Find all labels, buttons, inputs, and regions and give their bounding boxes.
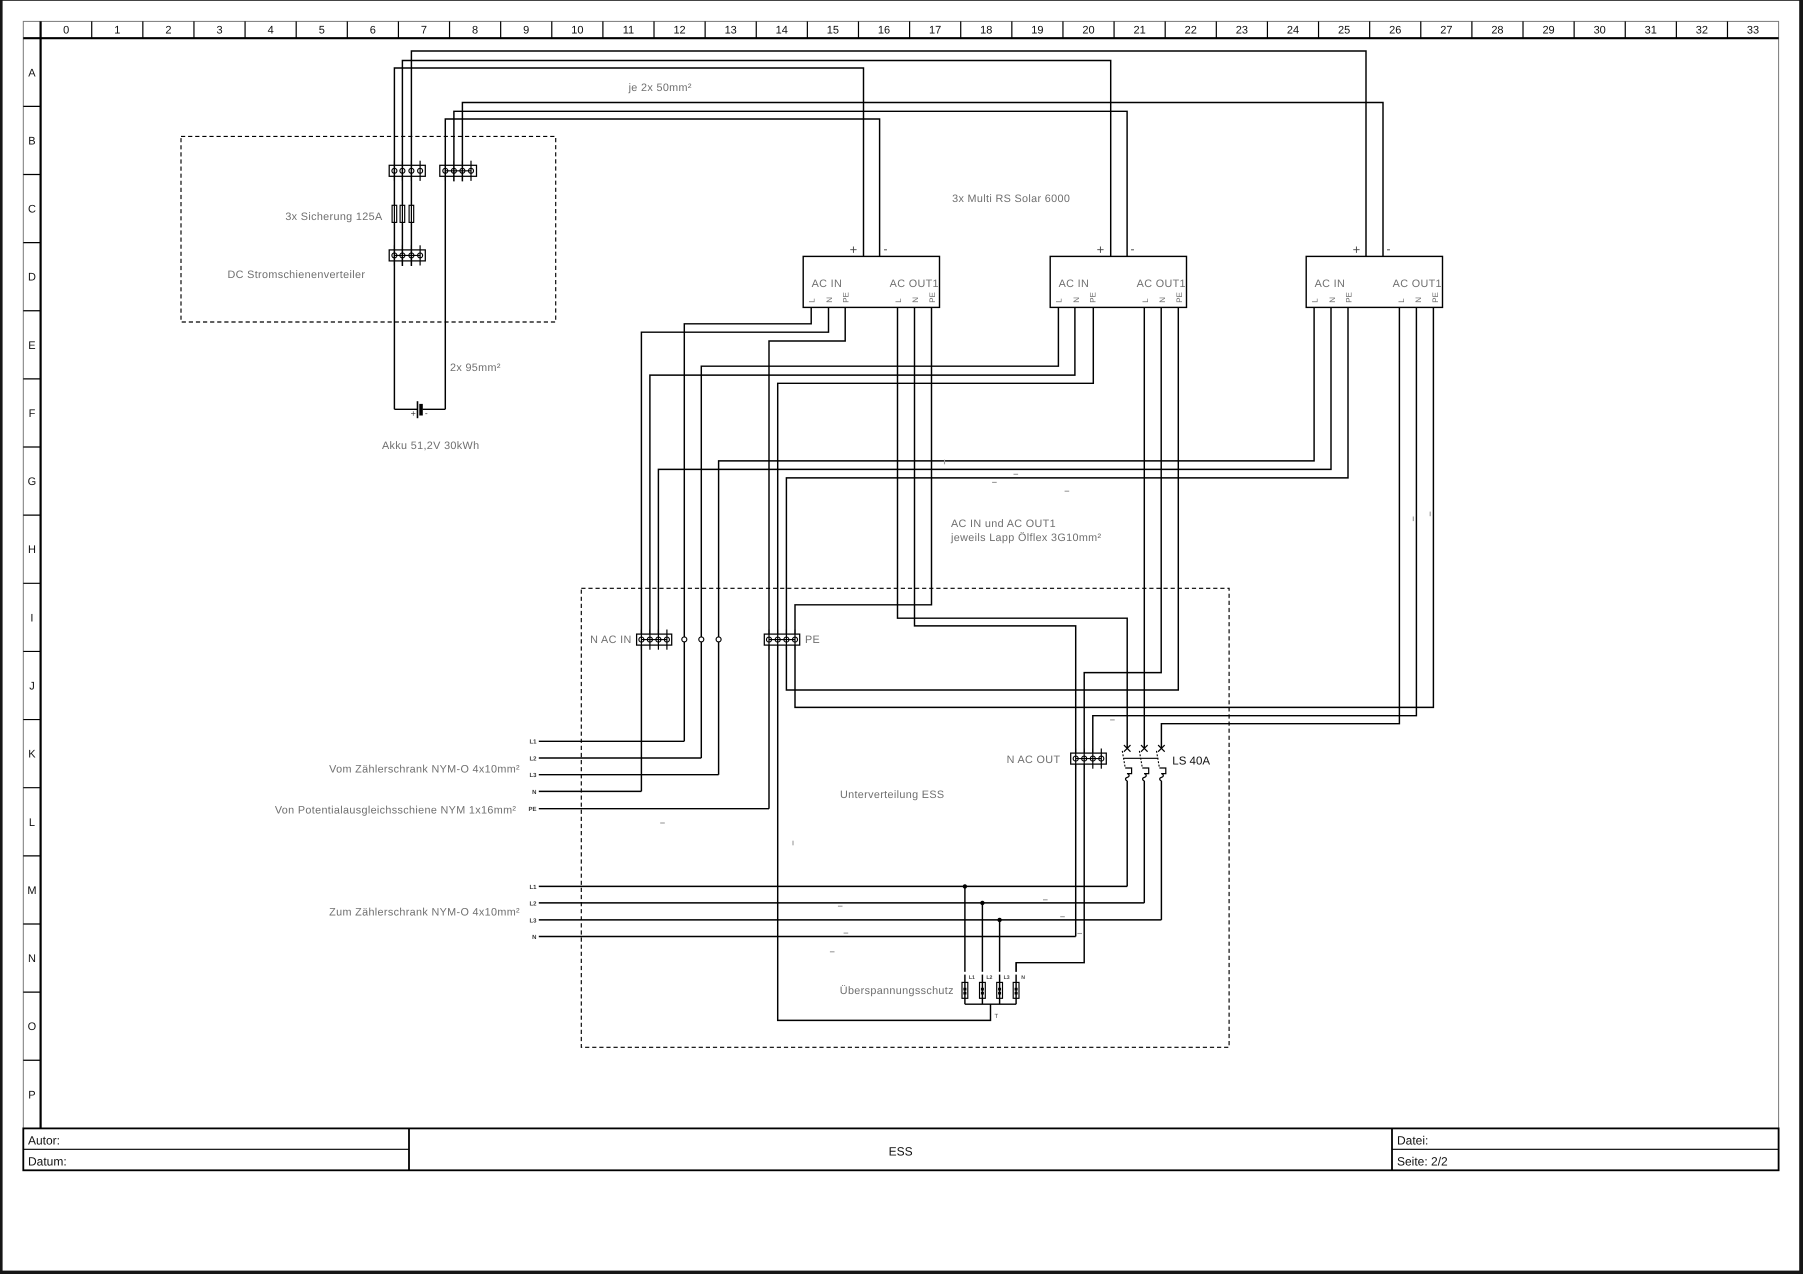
- inverter U1 Multi RS Solar 6000: [803, 256, 939, 307]
- svg-text:6: 6: [370, 25, 376, 37]
- svg-text:27: 27: [1440, 25, 1452, 37]
- wire battery minus bus to inverter 2 -: [454, 111, 1127, 256]
- svg-text:10: 10: [571, 25, 583, 37]
- svg-text:PE: PE: [528, 806, 536, 813]
- svg-text:N: N: [825, 297, 834, 303]
- svg-text:L: L: [1055, 298, 1064, 303]
- svg-text:L3: L3: [529, 772, 537, 779]
- inverter U2 pin L: [1055, 298, 1064, 303]
- svg-text:L: L: [1397, 298, 1406, 303]
- label LS 40A: [1172, 755, 1210, 767]
- terminal block X1 (fuse feed): [389, 161, 425, 181]
- svg-text:L: L: [29, 817, 35, 829]
- svg-text:N: N: [1414, 297, 1423, 303]
- svg-text:AC IN und AC OUT1: AC IN und AC OUT1: [951, 518, 1056, 530]
- svg-text:I: I: [30, 612, 33, 624]
- wire inverter U2 AC IN N to N AC IN terminal: [650, 307, 1075, 634]
- terminal block N AC OUT: [1007, 749, 1107, 769]
- wire output L3 (breaker 3 to meter): [529, 781, 1161, 925]
- svg-text:11: 11: [623, 25, 634, 37]
- svg-text:Datum:: Datum:: [28, 1155, 67, 1169]
- svg-text:22: 22: [1185, 25, 1197, 37]
- wire battery plus bus to inverter 1 +: [394, 68, 863, 409]
- svg-text:DC Stromschienenverteiler: DC Stromschienenverteiler: [228, 269, 366, 281]
- svg-text:-: -: [425, 408, 428, 418]
- svg-text:1: 1: [114, 25, 120, 37]
- svg-text:Vom Zählerschrank NYM-O 4x10mm: Vom Zählerschrank NYM-O 4x10mm²: [329, 764, 520, 776]
- svg-text:AC IN: AC IN: [1059, 278, 1090, 290]
- svg-text:H: H: [28, 544, 36, 556]
- svg-text:L2: L2: [529, 755, 537, 762]
- svg-text:Unterverteilung ESS: Unterverteilung ESS: [840, 789, 944, 801]
- svg-text:F: F: [29, 408, 36, 420]
- svg-text:14: 14: [776, 25, 788, 37]
- svg-text:-: -: [1131, 242, 1135, 256]
- svg-text:Akku 51,2V 30kWh: Akku 51,2V 30kWh: [382, 440, 479, 452]
- svg-text:L3: L3: [1004, 975, 1010, 981]
- inverter U1 pin PE: [928, 292, 937, 303]
- wire battery minus bus to inverter 1 -: [445, 119, 879, 409]
- svg-text:Von Potentialausgleichsschiene: Von Potentialausgleichsschiene NYM 1x16m…: [275, 805, 517, 817]
- svg-text:13: 13: [725, 25, 737, 37]
- svg-text:Datei:: Datei:: [1397, 1134, 1428, 1148]
- wire output L2 (breaker 2 to meter): [529, 781, 1144, 908]
- svg-text:N AC IN: N AC IN: [590, 634, 631, 646]
- svg-text:B: B: [28, 135, 35, 147]
- svg-text:J: J: [29, 681, 35, 693]
- junction L2 / surge arrester: [980, 901, 984, 905]
- terminal block X3 (minus busbar): [440, 161, 477, 181]
- svg-text:N: N: [28, 953, 36, 965]
- svg-text:L: L: [808, 298, 817, 303]
- svg-text:M: M: [27, 885, 36, 897]
- wire grid feed N: [532, 645, 641, 796]
- wire output L1 (breaker 1 to meter): [529, 781, 1127, 891]
- svg-text:16: 16: [878, 25, 890, 37]
- svg-text:18: 18: [980, 25, 992, 37]
- svg-text:29: 29: [1542, 25, 1554, 37]
- svg-text:Autor:: Autor:: [28, 1134, 60, 1148]
- svg-text:19: 19: [1031, 25, 1043, 37]
- svg-text:+: +: [850, 242, 858, 257]
- svg-text:+: +: [1097, 242, 1105, 257]
- inverter U3 pin N: [1414, 297, 1423, 303]
- wire inverter U2 AC OUT1 N to N AC OUT terminal: [1084, 307, 1161, 753]
- terminal block N AC IN: [590, 630, 672, 650]
- wire inverter U2 AC OUT1 PE to PE terminal: [786, 307, 1178, 690]
- svg-text:N: N: [1021, 975, 1025, 981]
- svg-text:15: 15: [827, 25, 839, 37]
- wire inverter U2 AC IN L to L2 feed-through: [701, 307, 1058, 758]
- svg-text:N: N: [532, 934, 536, 941]
- svg-text:AC IN: AC IN: [812, 278, 843, 290]
- terminal block PE: [764, 630, 820, 650]
- Unterverteilung ESS enclosure: [581, 588, 1229, 1047]
- wire inverter U1 AC IN L to L1 feed-through: [684, 307, 811, 741]
- svg-text:2x 95mm²: 2x 95mm²: [450, 362, 501, 374]
- svg-text:LS 40A: LS 40A: [1172, 755, 1210, 767]
- feed-through terminal L2: [699, 637, 704, 642]
- svg-text:N: N: [1072, 297, 1081, 303]
- wire battery plus bus to inverter 3 +: [411, 51, 1366, 266]
- svg-text:ESS: ESS: [889, 1145, 913, 1159]
- wire inverter U3 AC OUT1 N to N AC OUT terminal: [1093, 307, 1417, 753]
- svg-text:Zum Zählerschrank NYM-O 4x10mm: Zum Zählerschrank NYM-O 4x10mm²: [329, 906, 520, 918]
- svg-text:31: 31: [1645, 25, 1657, 37]
- label Zum Zaehlerschrank NYM-O 4x10mm2: [329, 906, 520, 918]
- svg-text:3x Multi RS Solar 6000: 3x Multi RS Solar 6000: [952, 193, 1070, 205]
- label 2x 95mm2: [450, 362, 501, 374]
- surge arrester L3: [997, 920, 1010, 1004]
- inverter U3 plus terminal label: [1353, 242, 1361, 257]
- wire grid feed L2: [529, 755, 701, 762]
- svg-text:21: 21: [1134, 25, 1146, 37]
- svg-text:L: L: [1141, 298, 1150, 303]
- svg-text:O: O: [28, 1021, 37, 1033]
- DC Stromschienenverteiler enclosure: [181, 136, 556, 322]
- svg-text:0: 0: [63, 25, 69, 37]
- inverter U2 pin PE: [1175, 292, 1184, 303]
- feed-through terminal L1: [682, 637, 687, 642]
- svg-text:PE: PE: [805, 634, 820, 646]
- inverter U3 pin PE: [1431, 292, 1440, 303]
- svg-text:PE: PE: [1175, 292, 1184, 303]
- tick marks (export artifacts): [660, 460, 1430, 952]
- wire battery minus bus to inverter 3 -: [462, 103, 1383, 257]
- svg-text:32: 32: [1696, 25, 1708, 37]
- svg-text:L1: L1: [969, 975, 975, 981]
- svg-text:25: 25: [1338, 25, 1350, 37]
- svg-text:24: 24: [1287, 25, 1299, 37]
- svg-text:3x Sicherung 125A: 3x Sicherung 125A: [285, 211, 383, 223]
- inverter U1 pin L: [808, 298, 817, 303]
- inverter U2 pin L: [1141, 298, 1150, 303]
- svg-text:9: 9: [523, 25, 529, 37]
- svg-text:5: 5: [319, 25, 325, 37]
- wire inverter U2 AC IN PE to PE terminal: [778, 307, 1094, 634]
- wire inverter U1 AC IN PE to PE terminal: [769, 307, 845, 634]
- svg-text:28: 28: [1491, 25, 1503, 37]
- svg-text:8: 8: [472, 25, 478, 37]
- svg-text:+: +: [411, 409, 416, 419]
- junction L3 / surge arrester: [997, 918, 1001, 922]
- wire inverter U3 AC IN PE to PE terminal: [786, 307, 1348, 634]
- svg-text:L: L: [1311, 298, 1320, 303]
- fuse F1 125A: [392, 205, 397, 222]
- inverter U3 pin L: [1311, 298, 1320, 303]
- inverter U3 minus terminal label: [1387, 242, 1391, 256]
- inverter U3 pin L: [1397, 298, 1406, 303]
- wire N AC OUT terminal to surge arrester N: [1016, 764, 1084, 972]
- svg-text:PE: PE: [1431, 292, 1440, 303]
- fuse F2 125A: [400, 205, 405, 222]
- svg-text:AC IN: AC IN: [1315, 278, 1346, 290]
- breaker linkage bar: [1124, 757, 1158, 759]
- terminal block X2 (plus busbar): [389, 245, 425, 265]
- svg-text:N: N: [532, 789, 536, 796]
- inverter U2 pin N: [1158, 297, 1167, 303]
- svg-text:L3: L3: [529, 917, 537, 924]
- inverter U1 minus terminal label: [884, 242, 888, 256]
- svg-text:7: 7: [421, 25, 427, 37]
- inverter U2 Multi RS Solar 6000: [1050, 256, 1186, 307]
- svg-text:C: C: [28, 204, 36, 216]
- svg-text:AC OUT1: AC OUT1: [890, 278, 939, 290]
- wire PE terminal to surge arrester ground: [778, 645, 991, 1021]
- svg-text:T: T: [994, 1013, 998, 1020]
- svg-text:A: A: [28, 67, 36, 79]
- wire inverter U3 AC IN N to N AC IN terminal: [658, 307, 1331, 634]
- surge arrester ground bus / T: [965, 1004, 1016, 1020]
- inverter U2 plus terminal label: [1097, 242, 1105, 257]
- svg-text:je 2x 50mm²: je 2x 50mm²: [628, 82, 692, 94]
- wire inverter U1 AC OUT1 L to breaker 1: [898, 307, 1128, 748]
- svg-text:L1: L1: [529, 884, 537, 891]
- svg-text:AC OUT1: AC OUT1: [1137, 278, 1186, 290]
- inverter U1 pin L: [894, 298, 903, 303]
- label je 2x 50mm2: [628, 82, 692, 94]
- inverter U1 plus terminal label: [850, 242, 858, 257]
- junction L1 / surge arrester: [963, 884, 967, 888]
- svg-text:3: 3: [216, 25, 222, 37]
- surge arrester L2: [980, 903, 993, 1004]
- inverter U1 pin PE: [842, 292, 851, 303]
- svg-text:23: 23: [1236, 25, 1248, 37]
- svg-text:PE: PE: [1345, 292, 1354, 303]
- inverter U3 pin PE: [1345, 292, 1354, 303]
- label Vom Zaehlerschrank NYM-O 4x10mm2: [329, 764, 520, 776]
- svg-text:P: P: [28, 1089, 35, 1101]
- circuit breaker Q2 LS 40A: [1139, 745, 1148, 781]
- svg-text:D: D: [28, 272, 36, 284]
- svg-text:17: 17: [929, 25, 941, 37]
- label Von Potentialausgleichsschiene NYM 1x16mm2: [275, 805, 517, 817]
- svg-text:AC OUT1: AC OUT1: [1393, 278, 1442, 290]
- svg-text:12: 12: [673, 25, 685, 37]
- wire inverter U3 AC IN L to L3 feed-through: [719, 307, 1315, 774]
- wire grid feed L3: [529, 772, 718, 779]
- wire battery plus bus to inverter 2 +: [402, 61, 1110, 267]
- wire inverter U3 AC OUT1 PE to PE terminal: [795, 307, 1433, 707]
- wire inverter U1 AC OUT1 PE to PE terminal: [795, 307, 932, 634]
- wire inverter U1 AC OUT1 N to N AC OUT terminal: [915, 307, 1076, 753]
- svg-text:L2: L2: [986, 975, 992, 981]
- svg-text:PE: PE: [842, 292, 851, 303]
- svg-text:-: -: [884, 242, 888, 256]
- svg-text:4: 4: [268, 25, 274, 37]
- svg-text:K: K: [28, 749, 36, 761]
- inverter U1 pin N: [825, 297, 834, 303]
- svg-text:+: +: [1353, 242, 1361, 257]
- label 3x Multi RS Solar 6000: [952, 193, 1070, 205]
- svg-text:-: -: [1387, 242, 1391, 256]
- svg-text:26: 26: [1389, 25, 1401, 37]
- inverter U3 Multi RS Solar 6000: [1306, 256, 1442, 307]
- circuit breaker Q1 LS 40A: [1122, 745, 1131, 781]
- svg-text:L: L: [894, 298, 903, 303]
- circuit breaker Q3 LS 40A: [1157, 745, 1166, 781]
- wire inverter U1 AC IN N to N AC IN terminal: [641, 307, 828, 634]
- inverter U3 pin N: [1328, 297, 1337, 303]
- feed-through terminal L3: [716, 637, 721, 642]
- svg-text:Seite: 2/2: Seite: 2/2: [1397, 1155, 1448, 1169]
- svg-text:N: N: [911, 297, 920, 303]
- svg-text:N: N: [1158, 297, 1167, 303]
- svg-text:30: 30: [1594, 25, 1606, 37]
- wire inverter U2 AC OUT1 L to breaker 2: [1143, 307, 1145, 748]
- svg-text:L1: L1: [529, 739, 537, 746]
- svg-text:jeweils Lapp Ölflex 3G10mm²: jeweils Lapp Ölflex 3G10mm²: [950, 531, 1102, 544]
- surge arrester N: [1013, 963, 1025, 1005]
- fuse F3 125A: [409, 205, 414, 222]
- wire grid feed L1: [529, 739, 684, 746]
- svg-text:2: 2: [165, 25, 171, 37]
- inverter U2 pin N: [1072, 297, 1081, 303]
- inverter U1 pin N: [911, 297, 920, 303]
- title block: [23, 1128, 1778, 1170]
- svg-text:PE: PE: [928, 292, 937, 303]
- svg-text:G: G: [28, 476, 37, 488]
- svg-text:20: 20: [1082, 25, 1094, 37]
- svg-text:L2: L2: [529, 900, 537, 907]
- inverter U2 minus terminal label: [1131, 242, 1135, 256]
- wire inverter U3 AC OUT1 L to breaker 3: [1161, 307, 1399, 748]
- svg-text:33: 33: [1747, 25, 1759, 37]
- svg-text:PE: PE: [1089, 292, 1098, 303]
- wire output N (N AC OUT to meter): [532, 764, 1076, 941]
- label AC IN und AC OUT1 jeweils Lapp Olflex 3G10mm2: [950, 518, 1102, 544]
- svg-text:E: E: [28, 340, 35, 352]
- label Ueberspannungsschutz: [840, 984, 954, 997]
- battery Akku 51,2V 30kWh: [382, 401, 479, 452]
- svg-text:N: N: [1328, 297, 1337, 303]
- surge arrester L1: [962, 886, 975, 1004]
- wire PE from Potentialausgleichsschiene: [528, 645, 769, 813]
- svg-text:N AC OUT: N AC OUT: [1007, 754, 1061, 766]
- svg-text:Überspannungsschutz: Überspannungsschutz: [840, 984, 954, 997]
- inverter U2 pin PE: [1089, 292, 1098, 303]
